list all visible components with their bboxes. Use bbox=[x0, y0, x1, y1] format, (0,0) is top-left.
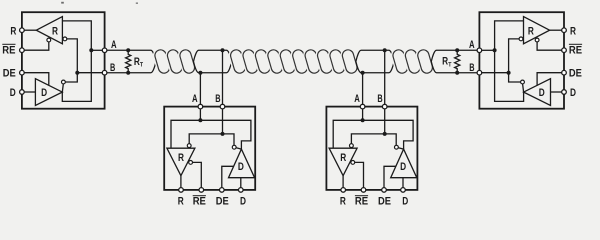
stub wire bus to U2 pin B bbox=[222, 50, 224, 104]
wire U4 R pin to receiver output bbox=[550, 29, 562, 31]
wire U1 node A to A pin bbox=[91, 49, 102, 51]
pin A of U3 bbox=[360, 104, 365, 109]
svg-text:B: B bbox=[110, 62, 115, 74]
wire U4 D pin to driver input bbox=[551, 91, 562, 93]
U2 receiver inverting input bubble bbox=[187, 144, 191, 148]
wire U1 pin A into twisted pair bbox=[107, 50, 156, 61]
pin RE of U4 bbox=[562, 48, 567, 53]
wire U2 internal B net (receiver - input and driver - output) bbox=[189, 134, 234, 145]
svg-text:D: D bbox=[10, 87, 16, 99]
wire U4 driver apex to inverting bubble bbox=[523, 84, 524, 92]
pin R of U2 bbox=[179, 188, 184, 193]
wire U4 driver inverting output to B node bbox=[509, 73, 521, 82]
junction dot RT right bottom bbox=[455, 71, 459, 75]
wire U1 pin B into twisted pair bbox=[107, 62, 156, 73]
U3 receiver inverting input bubble bbox=[350, 144, 354, 148]
pin R of U3 bbox=[341, 188, 346, 193]
svg-text:R: R bbox=[570, 26, 576, 38]
twisted pair link 3 (section 2) bbox=[254, 49, 271, 75]
svg-text:A: A bbox=[354, 93, 360, 105]
junction dot U2 B net bbox=[221, 132, 225, 136]
svg-text:DE: DE bbox=[216, 195, 229, 207]
overline of RE label U3 bbox=[355, 195, 368, 197]
wire U1 node B to B pin bbox=[77, 72, 102, 74]
bus top wire at stub tap 2 bbox=[356, 50, 394, 61]
svg-text:DE: DE bbox=[3, 67, 16, 79]
svg-text:D: D bbox=[539, 87, 545, 99]
bus top wire at stub tap 1 bbox=[194, 50, 232, 61]
twisted pair link 6 (section 2) bbox=[291, 49, 308, 75]
wire U3 internal B net (receiver - input and driver - output) bbox=[351, 134, 396, 145]
wire U1 D pin to driver input bbox=[24, 91, 35, 93]
wire U3 RE pin to receiver enable bbox=[355, 162, 364, 187]
svg-text:A: A bbox=[469, 39, 475, 51]
svg-text:T: T bbox=[140, 62, 143, 69]
overline of RE label U1 bbox=[2, 43, 15, 45]
twisted pair link 2 (section 1) bbox=[166, 49, 183, 75]
overline of RE label U4 bbox=[569, 43, 582, 45]
pin A of U2 bbox=[198, 104, 203, 109]
driver triangle U3-D bbox=[391, 149, 417, 178]
wire U4 receiver inverting input to B node bbox=[509, 39, 519, 71]
wire U4 node A to A pin bbox=[482, 49, 495, 51]
svg-text:B: B bbox=[215, 93, 220, 105]
wire U2 internal A net (receiver + input and driver + output) bbox=[171, 120, 251, 149]
pin DE of U3 bbox=[382, 188, 387, 193]
pin D of U2 bbox=[239, 188, 244, 193]
twisted pair link 2 (section 3) bbox=[404, 49, 421, 75]
svg-text:DE: DE bbox=[569, 67, 582, 79]
pin DE of U4 bbox=[562, 70, 567, 75]
svg-text:R: R bbox=[178, 152, 184, 164]
wire U3 A pin into box bbox=[362, 109, 364, 120]
twisted pair link 10 (section 2) bbox=[341, 49, 358, 75]
pin RE of U3 bbox=[361, 188, 366, 193]
svg-text:R: R bbox=[340, 152, 346, 164]
twisted pair link 8 (section 2) bbox=[316, 49, 333, 75]
wire twisted pair to U4 pin A bbox=[431, 50, 477, 61]
svg-text:R: R bbox=[528, 26, 534, 38]
junction dot stub U3-B on bus bbox=[383, 48, 387, 52]
U2 receiver enable bubble bbox=[189, 161, 193, 165]
pin B of U3 bbox=[382, 104, 387, 109]
junction dot U1 node B bbox=[75, 71, 79, 75]
wire U1 driver non-inverting output to A node bbox=[62, 50, 91, 101]
U3 driver inverting output bubble bbox=[395, 145, 399, 149]
svg-text:D: D bbox=[402, 195, 408, 207]
wire U2 driver apex to inverting bubble bbox=[236, 148, 241, 149]
junction dot U4 node A bbox=[493, 48, 497, 52]
wire U2 D pin to driver input bbox=[240, 178, 242, 188]
U1 receiver inverting input bubble bbox=[63, 37, 67, 41]
wire twisted pair to U4 pin B bbox=[431, 62, 477, 73]
svg-text:RE: RE bbox=[355, 195, 368, 207]
wire U4 driver non-inverting output to A node bbox=[495, 50, 524, 101]
twisted pair link 4 (section 2) bbox=[267, 49, 284, 75]
svg-text:RE: RE bbox=[193, 195, 206, 207]
U1 driver inverting output bubble bbox=[62, 80, 66, 84]
twisted pair link 1 (section 2) bbox=[229, 49, 246, 75]
pin D of U4 bbox=[562, 90, 567, 95]
wire U2 A pin into box bbox=[199, 109, 201, 120]
svg-text:T: T bbox=[448, 61, 451, 68]
wire U4 receiver non-inverting input from A node bbox=[495, 21, 524, 50]
termination resistor RT (right) bbox=[455, 50, 460, 72]
wire U2 receiver output to R pin bbox=[180, 176, 182, 188]
twisted pair link 5 (section 2) bbox=[279, 49, 296, 75]
junction dot U2 A net bbox=[198, 118, 202, 122]
wire U4 DE pin to driver enable bbox=[537, 73, 562, 86]
op-amp style receiver triangle U1-R bbox=[36, 17, 62, 44]
svg-text:A: A bbox=[192, 93, 198, 105]
junction dot U1 node A bbox=[89, 48, 93, 52]
stub wire bus to U3 pin A bbox=[362, 73, 364, 105]
svg-text:D: D bbox=[400, 161, 406, 173]
pin A of U1 bbox=[102, 48, 107, 53]
pin R of U1 bbox=[20, 28, 25, 33]
wire U1 R pin to receiver output bbox=[24, 29, 36, 31]
pin B of U4 bbox=[477, 70, 482, 75]
junction dot RT right top bbox=[455, 48, 459, 52]
junction dot U4 node B bbox=[507, 71, 511, 75]
twisted pair link 1 (section 1) bbox=[154, 49, 171, 75]
junction dot stub U2-B on bus bbox=[221, 48, 225, 52]
driver triangle U2-D bbox=[229, 149, 255, 178]
svg-text:D: D bbox=[238, 161, 244, 173]
wire U3 internal A net (receiver + input and driver + output) bbox=[333, 120, 413, 149]
wire U1 driver apex to inverting bubble bbox=[62, 84, 63, 92]
transceiver U4 (right end node) box bbox=[479, 12, 564, 109]
wire U3 DE pin to driver enable bbox=[384, 166, 396, 187]
pin DE of U2 bbox=[220, 188, 225, 193]
driver triangle U4-D bbox=[524, 79, 551, 106]
receiver triangle U4-R bbox=[524, 17, 550, 44]
twisted pair link 3 (section 1) bbox=[179, 49, 196, 75]
wire U3 receiver output to R pin bbox=[342, 176, 344, 188]
wire U2 DE pin to driver enable bbox=[222, 166, 234, 187]
U2 driver inverting output bubble bbox=[232, 145, 236, 149]
twisted pair link 7 (section 2) bbox=[304, 49, 321, 75]
wire U2 B pin into box bbox=[222, 109, 224, 134]
svg-text:R: R bbox=[340, 195, 346, 207]
U4 receiver inverting input bubble bbox=[519, 37, 523, 41]
twisted pair link 2 (section 2) bbox=[242, 49, 259, 75]
driver triangle U1-D bbox=[35, 79, 62, 106]
pin B of U2 bbox=[220, 104, 225, 109]
pin D of U3 bbox=[401, 188, 406, 193]
junction dot U3 B net bbox=[383, 132, 387, 136]
twisted pair link 9 (section 2) bbox=[329, 49, 346, 75]
transceiver U3 (stub node) box bbox=[326, 107, 417, 190]
junction dot RT left top bbox=[126, 48, 130, 52]
wire U1 receiver inverting input to B node bbox=[67, 39, 78, 71]
wire U2 RE pin to receiver enable bbox=[193, 162, 202, 187]
junction dot U3 A net bbox=[361, 118, 365, 122]
svg-text:B: B bbox=[469, 62, 474, 74]
wire U1 RE pin to receiver enable bubble bbox=[24, 42, 49, 50]
junction dot stub U2-A on bus bbox=[198, 71, 202, 75]
pin R of U4 bbox=[562, 28, 567, 33]
stray mark top-mid bbox=[136, 2, 138, 4]
bus bottom wire at stub tap 1 bbox=[194, 62, 232, 73]
svg-text:D: D bbox=[570, 87, 576, 99]
junction dot stub U3-A on bus bbox=[361, 71, 365, 75]
pin RE of U2 bbox=[199, 188, 204, 193]
wire U4 RE pin to receiver enable bubble bbox=[537, 42, 562, 50]
pin A of U4 bbox=[477, 48, 482, 53]
svg-text:RE: RE bbox=[2, 44, 15, 56]
U1 receiver enable bubble (active-low RE) bbox=[47, 38, 51, 42]
wire U3 driver apex to inverting bubble bbox=[398, 148, 403, 149]
overline of RE label U2 bbox=[193, 195, 206, 197]
pin D of U1 bbox=[20, 90, 25, 95]
svg-text:D: D bbox=[41, 87, 47, 99]
stub wire bus to U3 pin B bbox=[384, 50, 386, 104]
stray mark top-left bbox=[61, 2, 64, 4]
svg-text:R: R bbox=[10, 25, 16, 37]
U3 receiver enable bubble bbox=[351, 161, 355, 165]
wire U1 receiver non-inverting input from A node bbox=[62, 21, 91, 50]
wire U1 driver inverting output to B node bbox=[65, 73, 77, 82]
svg-text:R: R bbox=[52, 26, 58, 38]
receiver triangle U3-R bbox=[329, 148, 357, 176]
receiver triangle U2-R bbox=[167, 148, 195, 176]
stub wire bus to U2 pin A bbox=[199, 73, 201, 105]
pin B of U1 bbox=[102, 70, 107, 75]
transceiver U2 (stub node) box bbox=[164, 107, 255, 190]
wire U3 B pin into box bbox=[384, 109, 386, 134]
U4 receiver enable bubble bbox=[535, 38, 539, 42]
svg-text:RE: RE bbox=[569, 44, 582, 56]
bus bottom wire at stub tap 2 bbox=[356, 62, 394, 73]
svg-text:D: D bbox=[240, 195, 246, 207]
twisted pair link 1 (section 3) bbox=[392, 49, 409, 75]
transceiver U1 (left end node) box bbox=[22, 12, 105, 109]
pin RE of U1 bbox=[20, 48, 25, 53]
pin DE of U1 bbox=[20, 70, 25, 75]
svg-text:B: B bbox=[377, 93, 382, 105]
wire U1 DE pin to driver enable bbox=[24, 73, 49, 86]
twisted pair link 3 (section 3) bbox=[416, 49, 433, 75]
svg-text:DE: DE bbox=[378, 195, 391, 207]
svg-text:R: R bbox=[178, 195, 184, 207]
wire U3 D pin to driver input bbox=[402, 178, 404, 188]
termination resistor RT (left) bbox=[126, 50, 131, 72]
U4 driver inverting output bubble bbox=[521, 80, 525, 84]
svg-text:A: A bbox=[111, 39, 117, 51]
junction dot RT left bottom bbox=[126, 71, 130, 75]
wire U4 node B to B pin bbox=[482, 72, 509, 74]
